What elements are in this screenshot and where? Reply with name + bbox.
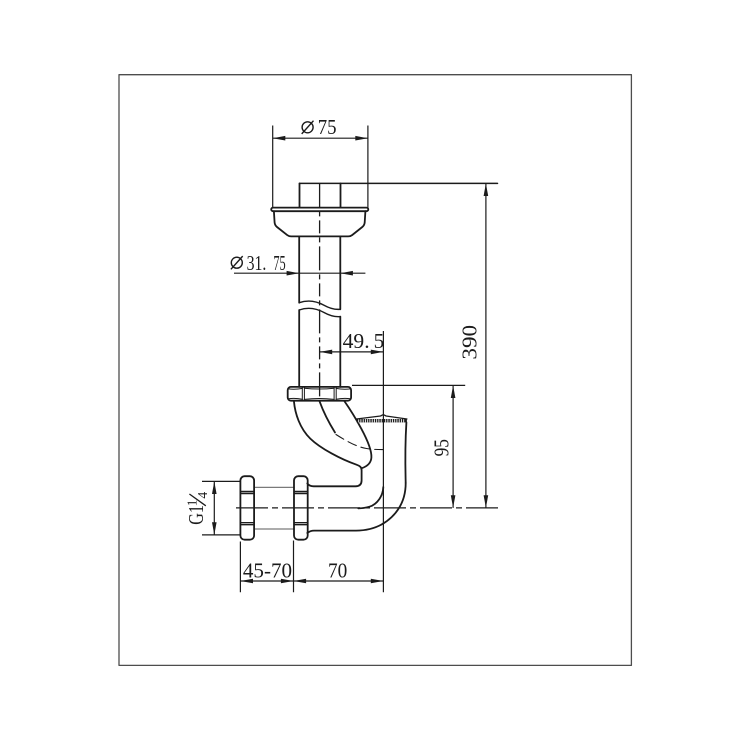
svg-text:75: 75: [273, 251, 285, 275]
nut facet arcs: [288, 388, 350, 399]
wall tube bottom edge: [254, 528, 294, 530]
dim 49.5 line: [320, 351, 384, 353]
wall tube top edge: [254, 486, 294, 488]
compression nut 1: [240, 476, 254, 540]
S-bend middle silhouette: [320, 401, 336, 432]
flange bowl: [274, 211, 366, 236]
diameter symbol of d31.75: [231, 256, 243, 269]
break wave 1: [299, 301, 340, 309]
S-bend inner contour: [344, 401, 371, 468]
dim 95 line: [452, 385, 454, 508]
dim G1-1/4 line: [213, 481, 215, 535]
arrows 49.5: [320, 350, 333, 355]
S-bend dash-dot bend centerline: [336, 435, 383, 450]
svg-text:5: 5: [374, 329, 385, 353]
svg-text:45-70: 45-70: [243, 559, 292, 583]
break wave 2: [299, 308, 340, 316]
svg-text:4: 4: [195, 492, 210, 499]
S-bend outer contour, vertical stub, inner corner, horizontal pipe top edge: [294, 401, 362, 486]
border frame: [119, 75, 631, 666]
arrows d31.75 (outside, pointing inward): [287, 271, 300, 276]
extension line x=383.4 (49.5 and 70): [382, 331, 384, 592]
tailpiece left edge upper: [298, 236, 300, 302]
centerline horizontal pipe: [236, 507, 500, 509]
svg-text:390: 390: [458, 325, 482, 360]
diameter symbol of d75: [302, 121, 314, 134]
dome flange band: [357, 419, 407, 422]
svg-text:G1: G1: [184, 505, 208, 525]
dim 95 top extension: [352, 384, 465, 386]
dome band knurl ticks: [359, 419, 404, 422]
compression nut 2: [294, 476, 308, 540]
elbow outer curve and pipe bottom edge: [307, 483, 405, 533]
svg-text:31.: 31.: [247, 251, 267, 275]
tailpiece left edge lower: [298, 310, 300, 387]
svg-text:49.: 49.: [343, 329, 370, 353]
drain cap: [300, 183, 341, 207]
nut 2 facet lines: [295, 492, 308, 525]
arrows 45-70: [240, 579, 253, 584]
hex nut big: [288, 387, 351, 401]
outlet pipe right edge: [405, 422, 406, 483]
cap top line and 390 extension line: [300, 182, 498, 184]
dim 390 line: [485, 183, 487, 508]
arrows 70: [294, 579, 307, 584]
dim G1-1/4 extension lines: [202, 481, 240, 535]
arrows G1-1/4: [212, 481, 217, 494]
dim bottom line 45-70 and 70: [240, 580, 383, 582]
elbow inner silhouette: [358, 487, 383, 508]
fraction slash: [189, 494, 205, 506]
dim 45-70 extension lines: [240, 541, 293, 593]
dim d75 extension lines: [273, 126, 368, 208]
svg-text:70: 70: [328, 559, 347, 583]
dome flange top: [357, 415, 407, 419]
svg-text:75: 75: [318, 115, 337, 139]
tailpiece right edge lower: [339, 317, 341, 387]
flange plate: [271, 208, 368, 212]
arrows 390: [484, 183, 489, 196]
nut facet lines: [302, 387, 336, 400]
dim d75 line: [273, 137, 368, 139]
arrows 95: [451, 385, 456, 398]
centerline vertical tailpiece: [319, 183, 321, 400]
tailpiece right edge upper: [339, 236, 341, 309]
svg-text:95: 95: [430, 439, 454, 456]
nut 1 facet lines: [241, 492, 254, 525]
dim d31.75 line: [234, 272, 365, 274]
arrows d75: [273, 136, 286, 141]
